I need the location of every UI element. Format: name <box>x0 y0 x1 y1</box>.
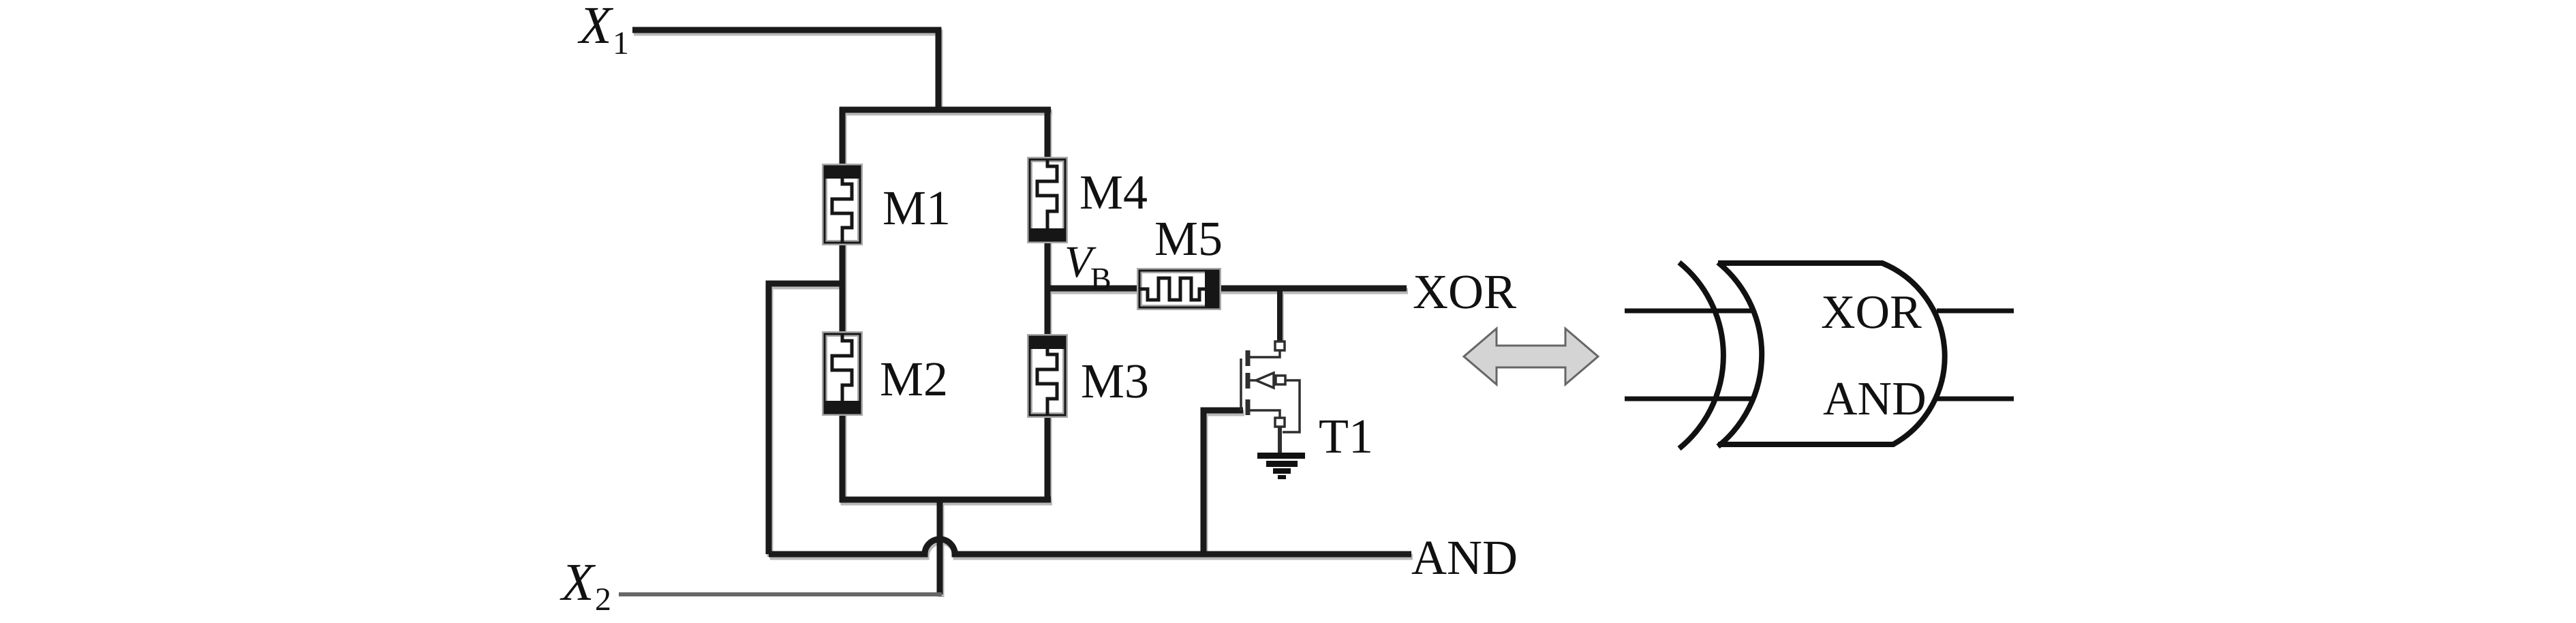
wire: AND output rail with crossover hop <box>769 539 1411 554</box>
svg-text:T1: T1 <box>1319 409 1373 464</box>
svg-text:AND: AND <box>1411 530 1518 585</box>
memristor M2 <box>825 334 860 413</box>
svg-text:M2: M2 <box>880 352 948 406</box>
gate symbol: XOR input arc 1 <box>1679 262 1723 449</box>
svg-text:XOR: XOR <box>1413 264 1516 319</box>
svg-text:B: B <box>1090 261 1111 296</box>
wire: VB node to M5 <box>1047 286 1141 292</box>
T1 body link <box>1250 379 1256 382</box>
gate output wire XOR <box>1937 309 2014 314</box>
wire: right column upper (top rail to M4) <box>1045 107 1051 161</box>
T1 drain terminal square <box>1275 341 1285 350</box>
ground symbol <box>1257 453 1305 479</box>
memristor M1 <box>825 166 860 243</box>
T1 body terminal square <box>1276 376 1285 384</box>
wire: left mid-node branch down to AND rail <box>769 284 845 554</box>
wire: T1 drain drop from XOR net <box>1277 288 1283 342</box>
wire: bridge bottom rail <box>840 497 1051 503</box>
T1 source terminal square <box>1275 418 1285 427</box>
svg-text:2: 2 <box>595 581 611 618</box>
wire: left column middle (M1 to M2) <box>840 241 846 335</box>
svg-text:1: 1 <box>613 25 629 61</box>
T1 source to ground <box>1278 427 1282 454</box>
memristor M3 <box>1030 337 1065 415</box>
wire: left column upper (top rail to M1) <box>840 107 846 168</box>
gate symbol: XOR input arc 2 (body left edge) <box>1718 262 1762 446</box>
svg-text:M4: M4 <box>1079 165 1148 219</box>
gate input wire bottom <box>1625 397 1754 401</box>
T1 gate bar <box>1240 359 1242 410</box>
wire: M5 to XOR output <box>1217 286 1407 292</box>
wire: left column lower (M2 to bottom rail) <box>840 412 846 502</box>
wire group shadows <box>634 33 1413 597</box>
svg-text:M5: M5 <box>1154 211 1223 266</box>
equivalence arrow <box>1464 329 1598 384</box>
T1 body arrow <box>1256 373 1274 388</box>
svg-text:AND: AND <box>1823 373 1927 425</box>
wire: right column middle (M4 to M3 through VB node) <box>1045 239 1051 338</box>
svg-text:XOR: XOR <box>1821 286 1922 339</box>
svg-text:M3: M3 <box>1081 354 1149 408</box>
wire: right column lower (M3 to bottom rail) <box>1045 414 1051 502</box>
gate symbol: body outline <box>1718 263 1945 444</box>
memristor M4 <box>1030 159 1065 241</box>
svg-text:M1: M1 <box>883 181 951 235</box>
wire: X1 input horizontal and down to bridge top <box>632 30 938 112</box>
wire: X2 input (gray) <box>619 592 942 596</box>
memristor M5 <box>1139 271 1218 307</box>
gate input wire top <box>1625 309 1754 314</box>
gate output wire AND <box>1937 397 2014 401</box>
wire: bridge bottom center vertical down to X2 <box>937 498 943 594</box>
svg-text:X: X <box>577 0 614 55</box>
T1 channel segments <box>1246 350 1251 366</box>
wire: T1 gate lead down to AND rail <box>1203 410 1243 554</box>
svg-text:X: X <box>559 552 596 611</box>
T1 source link <box>1250 410 1280 419</box>
transistor T1 <box>1241 341 1300 454</box>
wire: bridge top rail <box>840 107 1051 113</box>
T1 drain link <box>1250 349 1280 357</box>
